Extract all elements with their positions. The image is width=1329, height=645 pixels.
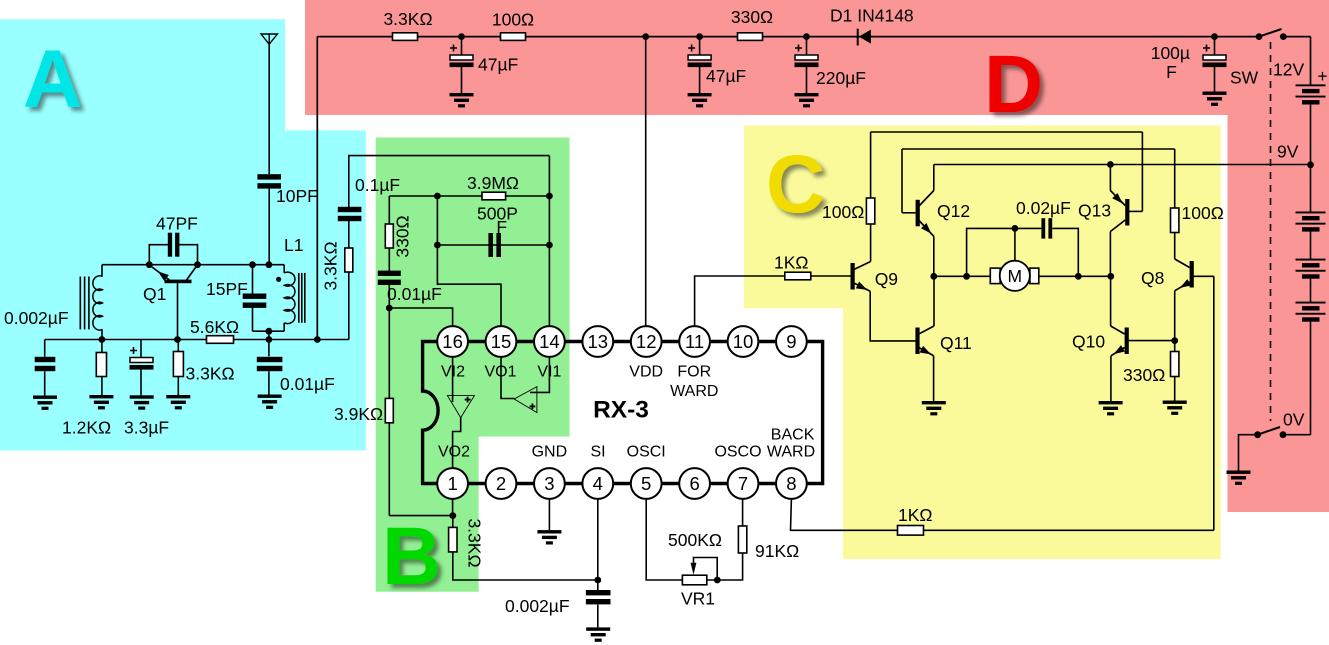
ground 47uF-1 xyxy=(450,93,474,107)
resistor 91Kohm xyxy=(738,526,746,553)
svg-text:D1 IN4148: D1 IN4148 xyxy=(830,6,914,26)
svg-text:3: 3 xyxy=(544,473,554,494)
wire battery top lead xyxy=(1310,37,1312,86)
junction SI node xyxy=(594,577,601,584)
wire pin link bottom 2-3 xyxy=(516,482,534,485)
wire motor rail left xyxy=(934,275,991,277)
pin 1 xyxy=(437,468,468,499)
wire middle loop right drop xyxy=(1174,149,1176,208)
switch SW right contact xyxy=(1280,33,1287,40)
capacitor 0.02uF xyxy=(1041,218,1052,238)
arrow Q13 emitter (PNP) xyxy=(1112,193,1125,206)
wire 220uF top lead xyxy=(806,37,808,55)
wire top supply bus xyxy=(317,36,1259,38)
antenna xyxy=(261,34,277,44)
wire VDD line down to pin 12 xyxy=(645,37,647,327)
ground 100uF xyxy=(1203,92,1227,106)
svg-text:Q8: Q8 xyxy=(1141,268,1164,288)
svg-text:0.02µF: 0.02µF xyxy=(1016,198,1071,218)
svg-text:M: M xyxy=(1008,266,1023,286)
switch 0V left contact xyxy=(1254,431,1261,438)
wire C middle loop top xyxy=(902,148,1175,150)
junction 0.01uF node xyxy=(266,336,273,343)
wire A lower rail xyxy=(45,339,349,341)
wire 0.01uF(A) top lead xyxy=(268,340,270,357)
wire 1.2Kohm top lead xyxy=(101,340,103,353)
svg-text:10: 10 xyxy=(733,331,754,352)
ground 220uF xyxy=(795,93,819,107)
svg-text:SI: SI xyxy=(590,444,605,461)
ground Q10 xyxy=(1099,401,1123,415)
svg-text:0.01µF: 0.01µF xyxy=(387,284,442,304)
svg-text:500KΩ: 500KΩ xyxy=(668,530,722,550)
transistor Q12 xyxy=(916,191,934,237)
svg-text:3.3KΩ: 3.3KΩ xyxy=(465,518,485,567)
svg-text:Q11: Q11 xyxy=(940,333,972,353)
wire pin link bottom 4-5 xyxy=(613,482,631,485)
switch 0V right contact xyxy=(1280,431,1287,438)
wire 330ohm(C) to ground xyxy=(1174,377,1176,401)
ground pin3 xyxy=(537,530,561,544)
pin 12 xyxy=(631,326,662,357)
wire Q9 emitter to Q11 base xyxy=(870,291,915,341)
resistor 3.3Kohm (A right) xyxy=(345,248,353,272)
junction cap loop right xyxy=(1075,273,1082,280)
wire 3.3Kohm(A2) branch lower xyxy=(348,220,350,339)
ground 0.002uF (A) xyxy=(33,396,57,410)
wire 1.2Kohm bottom lead xyxy=(101,377,103,396)
pin 14 xyxy=(534,326,565,357)
svg-text:3.3µF: 3.3µF xyxy=(124,418,169,438)
wire pin4 down xyxy=(597,499,599,580)
svg-text:F: F xyxy=(496,217,507,237)
wire Q12 base riser xyxy=(901,149,903,213)
arrow VR1 wiper xyxy=(691,563,697,575)
wire pin link top 10-9 xyxy=(758,340,776,343)
svg-text:2: 2 xyxy=(496,473,506,494)
svg-text:OSCI: OSCI xyxy=(627,444,666,461)
resistor 3.9Mohm xyxy=(482,192,506,200)
svg-text:330Ω: 330Ω xyxy=(393,215,413,257)
svg-text:L1: L1 xyxy=(284,235,303,255)
arrow Q1 emitter xyxy=(156,268,169,281)
wire 0.002uF top lead xyxy=(44,340,46,357)
svg-text:5.6KΩ: 5.6KΩ xyxy=(190,317,239,337)
wire 500P rail xyxy=(437,244,549,246)
wire outer loop right drop xyxy=(1141,132,1143,211)
capacitor 0.01uF (A) xyxy=(257,357,283,371)
capacitor 500PF xyxy=(488,233,501,257)
core lines antenna coil xyxy=(80,277,89,330)
pin 8 xyxy=(776,468,807,499)
wire feedback column down xyxy=(388,284,390,515)
wire battery bottom to 0V switch xyxy=(1310,322,1312,435)
junction 500P right xyxy=(546,242,553,249)
junction Q13/Q10 node xyxy=(1107,273,1114,280)
wire 0V to ground xyxy=(1239,435,1258,471)
wire 0.002uF(B) top lead xyxy=(597,580,599,591)
wire 0.002uF(B) bottom lead xyxy=(597,605,599,628)
resistor 1.2Kohm xyxy=(96,353,106,377)
wire antenna to 10PF xyxy=(268,44,270,174)
svg-text:12: 12 xyxy=(636,331,657,352)
wire to 330ohm(C) xyxy=(1174,341,1176,352)
svg-text:RX-3: RX-3 xyxy=(593,397,649,424)
junction Q13/9V xyxy=(1107,161,1114,168)
capacitor 220uF xyxy=(795,45,819,68)
svg-text:Q13: Q13 xyxy=(1078,201,1111,221)
wire pin15 to A2 out xyxy=(501,357,514,399)
wire 330ohm top lead xyxy=(388,196,390,224)
wire C outer loop top xyxy=(871,131,1143,133)
wire 47uF-2 top lead xyxy=(699,37,701,55)
junction bus/47uF-2 xyxy=(696,33,703,40)
svg-text:8: 8 xyxy=(786,473,796,494)
wire Q12 collector to 9V xyxy=(933,165,935,191)
arrow Q9 emitter xyxy=(856,282,869,294)
wire Q8 base xyxy=(1193,275,1214,277)
junction motor top feed xyxy=(1012,225,1019,232)
wire 15PF top lead xyxy=(252,265,254,295)
switch gang dashed link xyxy=(1270,42,1272,421)
svg-text:330Ω: 330Ω xyxy=(1123,365,1165,385)
svg-text:4: 4 xyxy=(593,473,603,494)
transistor Q8 xyxy=(1175,259,1194,291)
svg-text:47µF: 47µF xyxy=(478,55,518,75)
battery cells 12V top pair xyxy=(1296,84,1326,104)
svg-text:1: 1 xyxy=(447,473,457,494)
wire 220uF bottom lead xyxy=(806,67,808,93)
svg-text:7: 7 xyxy=(738,473,748,494)
wire 47uF-2 bottom lead xyxy=(699,67,701,93)
wire cap loop left/top xyxy=(967,228,1042,276)
svg-text:15PF: 15PF xyxy=(206,279,248,299)
wire pin1 down xyxy=(452,499,454,516)
junction bus/VDD line xyxy=(642,33,649,40)
svg-text:91KΩ: 91KΩ xyxy=(755,541,799,561)
polarity dot L1 xyxy=(276,277,281,282)
svg-text:VO2: VO2 xyxy=(438,444,470,461)
svg-text:1KΩ: 1KΩ xyxy=(774,253,809,273)
wire Q1 base lead xyxy=(177,283,179,339)
wire Q12 emitter down xyxy=(933,236,935,276)
svg-text:3.3KΩ: 3.3KΩ xyxy=(321,241,341,290)
wire cap loop right xyxy=(1052,228,1078,276)
wire switch to battery xyxy=(1283,36,1310,38)
wire coil bottom lead xyxy=(101,329,103,339)
wire 3.3Kohm(B) to SI node xyxy=(453,552,598,580)
wire 3.3uF top lead xyxy=(140,340,142,358)
motor M xyxy=(990,261,1039,291)
svg-text:3.9KΩ: 3.9KΩ xyxy=(334,404,383,424)
resistor 330ohm (B) xyxy=(385,224,393,248)
wire 9V to cells2 xyxy=(1310,165,1312,212)
wire 3.3uF bottom lead xyxy=(140,370,142,396)
wire 100ohm to Q9 xyxy=(870,224,872,262)
svg-text:100µ: 100µ xyxy=(1151,43,1190,63)
pin 10 xyxy=(728,326,759,357)
resistor 330ohm (C) xyxy=(1171,352,1179,377)
svg-text:VDD: VDD xyxy=(629,364,663,381)
capacitor 0.1uF xyxy=(338,207,362,221)
svg-text:FOR: FOR xyxy=(677,364,711,381)
svg-text:B: B xyxy=(382,511,441,602)
pin 5 xyxy=(631,468,662,499)
resistor 5.6Kohm xyxy=(207,336,234,344)
wire to 0V switch right contact xyxy=(1283,434,1311,436)
svg-text:10PF: 10PF xyxy=(276,186,318,206)
wire 3.3Kohm(A) bottom lead xyxy=(177,377,179,396)
wire 47uF-1 top lead xyxy=(461,37,463,55)
resistor 1Kohm (forward) xyxy=(785,272,811,280)
label A1 plus xyxy=(465,397,471,403)
junction 15PF top xyxy=(249,261,256,268)
resistor 100ohm (right) xyxy=(1171,208,1179,233)
IC U1 RX-3 outline left xyxy=(423,342,439,484)
core lines L1 xyxy=(299,273,305,323)
region C background (yellow) xyxy=(744,126,1221,560)
ground Q11 xyxy=(922,401,946,415)
svg-text:OSCO: OSCO xyxy=(714,444,761,461)
region A background (cyan) xyxy=(0,19,366,450)
resistor 3.3Kohm (B) xyxy=(449,527,457,552)
svg-text:0.002µF: 0.002µF xyxy=(505,596,570,616)
wire 9V rail xyxy=(934,164,1311,166)
node 9V tap xyxy=(1307,161,1314,168)
junction Q1 emitter node xyxy=(146,261,153,268)
svg-text:D: D xyxy=(984,39,1043,130)
ground 330ohm (C) xyxy=(1163,401,1187,415)
svg-text:C: C xyxy=(766,139,825,230)
wire pin8 backward line xyxy=(791,499,1214,530)
wire 330ohm to 0.01uF xyxy=(388,248,390,271)
pin 16 xyxy=(437,326,468,357)
wire 3.3Kohm(A) top lead xyxy=(177,340,179,352)
wire to pin15 xyxy=(437,245,501,326)
junction VR1 wiper/track xyxy=(714,577,721,584)
wire tank tap down xyxy=(268,331,270,339)
wire pin link top 16-15 xyxy=(468,340,486,343)
op-amp A2 (VI1/VO1) xyxy=(514,387,537,413)
wire Q13 emitter to 9V xyxy=(1109,165,1111,191)
ground 0.002uF (B) xyxy=(586,627,610,641)
svg-text:3.3KΩ: 3.3KΩ xyxy=(186,364,235,384)
wire A1 out to pin1 xyxy=(453,417,461,468)
arrow Q10 emitter xyxy=(1112,345,1125,357)
wire to 3.3Kohm(B) xyxy=(452,516,454,528)
wire bus left drop to region A xyxy=(316,37,318,340)
resistor 100ohm (left) xyxy=(866,198,874,224)
resistor 330ohm (bus) xyxy=(738,33,763,41)
pin 4 xyxy=(582,468,613,499)
svg-text:16: 16 xyxy=(442,331,463,352)
junction Q1 collector node xyxy=(194,261,201,268)
junction Q1 base node xyxy=(174,336,181,343)
capacitor 3.3uF xyxy=(130,347,154,370)
svg-text:11: 11 xyxy=(685,331,704,352)
svg-text:9V: 9V xyxy=(1277,142,1299,162)
junction bus/220uF xyxy=(803,33,810,40)
wire pin link bottom 3-4 xyxy=(565,482,583,485)
resistor 1Kohm (backward) xyxy=(898,526,924,536)
wire pin16 to A1 xyxy=(452,357,454,402)
capacitor 100uF xyxy=(1203,45,1227,68)
wire to pin1 node xyxy=(389,515,453,517)
wire pin link top 13-12 xyxy=(613,340,631,343)
wire Q9 collector riser xyxy=(870,132,872,198)
op-amp A1 (VI2/VO2) xyxy=(447,396,474,418)
wire 15PF bottom lead xyxy=(252,307,254,331)
wire 47PF left xyxy=(149,245,168,265)
svg-text:12V: 12V xyxy=(1273,60,1304,80)
ground 3.3Kohm (A) xyxy=(166,395,190,409)
battery cells pair 4 xyxy=(1296,302,1326,322)
wire 100uF bottom lead xyxy=(1214,67,1216,92)
svg-text:47µF: 47µF xyxy=(706,66,746,86)
wire Q11 collector riser xyxy=(933,276,935,326)
svg-text:0.002µF: 0.002µF xyxy=(4,308,69,328)
pin 3 xyxy=(534,468,565,499)
wire to 3.9M left xyxy=(389,195,437,197)
wire 47uF-1 bottom lead xyxy=(461,67,463,93)
svg-text:+: + xyxy=(1317,66,1327,86)
wire 0.01uF(A) bottom lead xyxy=(268,371,270,394)
wire A upper rail xyxy=(102,264,284,266)
wire VR1 to 91K xyxy=(707,553,743,580)
wire motor rail right xyxy=(1039,275,1111,277)
wire 0.002uF bottom lead xyxy=(44,371,46,395)
region D background (red) xyxy=(305,0,1329,512)
switch SW left contact xyxy=(1256,33,1263,40)
region B background (green) xyxy=(376,138,570,592)
junction Q12/Q11 node xyxy=(930,273,937,280)
wire 10PF to tank xyxy=(268,189,270,265)
wire backward riser to Q8 base xyxy=(1213,276,1215,530)
pin 6 xyxy=(679,468,710,499)
wire 47PF right xyxy=(179,245,197,265)
svg-text:BACK: BACK xyxy=(771,427,815,444)
capacitor 47uF (1) xyxy=(450,45,474,68)
ground 1.2Kohm xyxy=(89,395,113,409)
wire Q10 base to node xyxy=(1128,340,1175,342)
capacitor 47PF xyxy=(168,233,180,257)
switch 0V lever xyxy=(1258,427,1280,435)
svg-text:0.1µF: 0.1µF xyxy=(355,175,400,195)
wire battery to 9V tap xyxy=(1310,105,1312,165)
svg-text:WARD: WARD xyxy=(670,383,718,400)
svg-text:GND: GND xyxy=(532,444,568,461)
ground 0.01uF (A) xyxy=(258,395,282,409)
pin 11 xyxy=(679,326,710,357)
battery cells pair 3 xyxy=(1296,259,1326,279)
svg-text:Q9: Q9 xyxy=(875,269,898,289)
wire Q13 base xyxy=(1129,210,1143,212)
capacitor 15PF xyxy=(243,294,267,308)
capacitor 10PF xyxy=(257,174,281,188)
wire cells3-cells4 xyxy=(1310,279,1312,302)
svg-text:330Ω: 330Ω xyxy=(731,7,773,27)
wire pin5 to VR1 xyxy=(646,499,682,580)
svg-text:3.3KΩ: 3.3KΩ xyxy=(383,9,432,29)
svg-text:0.01µF: 0.01µF xyxy=(280,374,335,394)
wire coil top lead xyxy=(101,265,103,277)
pin 9 xyxy=(776,326,807,357)
battery cells pair 2 xyxy=(1296,212,1326,232)
wire 100ohm to Q8 xyxy=(1174,233,1176,260)
IC U1 RX-3 outline right xyxy=(807,342,823,484)
transistor Q1 xyxy=(150,266,197,284)
wire cells2-cells3 xyxy=(1310,232,1312,260)
capacitor 0.002uF (B) xyxy=(586,590,611,604)
capacitor 47uF (2) xyxy=(688,45,712,68)
wire pin link top 14-13 xyxy=(565,340,583,343)
svg-text:9: 9 xyxy=(786,331,796,352)
pin 13 xyxy=(582,326,613,357)
svg-text:6: 6 xyxy=(689,473,699,494)
svg-text:1KΩ: 1KΩ xyxy=(898,505,933,525)
svg-text:13: 13 xyxy=(588,331,609,352)
capacitor 0.002uF (A) xyxy=(35,357,56,371)
svg-text:Q10: Q10 xyxy=(1072,332,1105,352)
inductor antenna coil xyxy=(93,276,103,330)
junction Q8/Q10/330 xyxy=(1171,337,1178,344)
wire pin14 to A2 in xyxy=(530,357,549,392)
resistor 3.3Kohm (bus) xyxy=(393,33,418,41)
svg-text:15: 15 xyxy=(491,331,512,352)
pin 7 xyxy=(728,468,759,499)
wire pin link bottom 6-7 xyxy=(710,482,728,485)
resistor 3.3Kohm (A bias) xyxy=(173,352,183,377)
svg-text:100Ω: 100Ω xyxy=(1182,203,1224,223)
junction 3.9M left xyxy=(434,193,441,200)
svg-text:47PF: 47PF xyxy=(156,214,198,234)
junction coil bottom xyxy=(99,336,106,343)
wire L1 top lead xyxy=(283,265,285,273)
transistor Q9 xyxy=(851,262,871,292)
svg-text:220µF: 220µF xyxy=(816,68,866,88)
transistor Q10 xyxy=(1111,326,1129,356)
svg-text:SW: SW xyxy=(1230,68,1259,88)
junction 500P left xyxy=(434,242,441,249)
arrow Q8 emitter xyxy=(1178,279,1191,291)
wire pin7 to 91K xyxy=(742,499,744,526)
svg-text:F: F xyxy=(1166,62,1177,82)
wire pin link top 15-14 xyxy=(516,340,534,343)
wire VR1 wiper arm xyxy=(694,558,718,581)
wire pin link top 11-10 xyxy=(710,340,728,343)
diode D1 IN4148 xyxy=(858,29,871,46)
wire pin link top 12-11 xyxy=(662,340,680,343)
svg-text:A: A xyxy=(23,34,82,125)
arrow Q12 emitter xyxy=(921,223,934,236)
svg-text:3.9MΩ: 3.9MΩ xyxy=(467,173,519,193)
capacitor 0.01uF (B) xyxy=(378,271,401,285)
wire pin link bottom 7-8 xyxy=(758,482,776,485)
ground 0V xyxy=(1227,471,1251,485)
resistor 100ohm (bus) xyxy=(501,33,526,41)
wire 1K to Q9 base xyxy=(811,275,851,277)
wire pin3 to ground xyxy=(548,499,550,530)
wire motor top lead xyxy=(1014,228,1016,260)
switch SW lever xyxy=(1259,29,1282,37)
ground 47uF-2 xyxy=(688,93,712,107)
svg-text:WARD: WARD xyxy=(767,443,815,460)
wire pin link bottom 1-2 xyxy=(468,482,486,485)
wire 0.1uF to pin14 line xyxy=(349,156,550,208)
junction 0.01uF/pin16 node xyxy=(386,305,393,312)
transistor Q11 xyxy=(915,326,934,356)
inductor L1 xyxy=(284,272,295,323)
